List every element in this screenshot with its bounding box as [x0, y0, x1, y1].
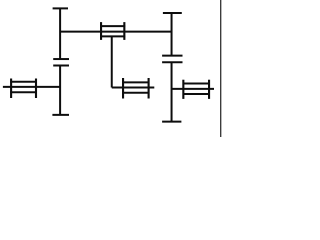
wire V3: right vertical wire, lower segment — [171, 62, 173, 121]
wire V1: left vertical wire, lower segment — [59, 66, 61, 115]
terminal: top end cap of wire V3 — [163, 12, 182, 14]
terminal: top end cap of wire V1 — [53, 7, 68, 9]
capacitor C6 (bottom right, boxed style) — [183, 80, 210, 99]
wire: left horizontal lead through C3 to node with wire V1 — [3, 86, 60, 88]
wire V3: right vertical wire, upper segment — [171, 13, 173, 56]
wire H1: top horizontal wire from V1 to V3 through C4 — [60, 31, 171, 33]
wire V1: left vertical wire, upper segment — [59, 8, 61, 59]
capacitor C4 (top, boxed style: two end plates with top/bottom lines) — [100, 22, 125, 40]
capacitor C2 (plates on vertical wire V3) — [162, 56, 182, 63]
capacitor C1 (plates on vertical wire V1) — [53, 59, 69, 65]
wire V2: middle vertical wire from C4 down to C5 — [111, 36, 113, 87]
wire: horizontal stub from V3 through C6 with free right end — [172, 88, 214, 90]
capacitor C5 (bottom middle, boxed style) — [122, 78, 149, 99]
wire: horizontal stub from V2 through C5 with free right end — [112, 87, 155, 89]
capacitor C3 (left, boxed style: two end plates with top/bottom lines) — [10, 79, 37, 99]
right page border line — [220, 0, 222, 137]
terminal: bottom end cap of wire V3 — [162, 121, 181, 123]
terminal: bottom end cap of wire V1 — [52, 114, 69, 116]
